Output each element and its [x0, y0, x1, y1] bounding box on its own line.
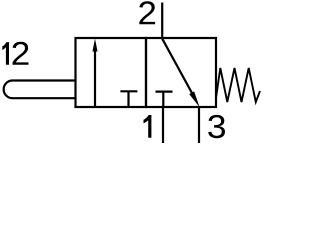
label 12 digit 2: [13, 42, 29, 65]
valve body right box: [146, 38, 216, 107]
label 3: [208, 115, 225, 138]
port 2 line: [161, 3, 163, 39]
return spring: [216, 68, 260, 102]
flow path diagonal arrowhead at port 3: [189, 91, 199, 107]
label 12 digit 1 (custom no-serif glyph): [2, 42, 9, 65]
blocked port T (right box, port 1): [156, 92, 173, 107]
flow path diagonal 2 to 3 (right box): [162, 39, 192, 94]
valve body left box: [76, 38, 147, 107]
port 1 line: [162, 107, 164, 143]
flow path arrow shaft (left box, 1 to 2): [94, 48, 96, 107]
label 2: [139, 1, 155, 24]
port 3 line: [198, 107, 200, 143]
label 1 (custom no-serif glyph): [144, 115, 152, 138]
blocked port T (left box, port 3): [120, 91, 137, 107]
manual plunger actuator (port 12): [4, 81, 76, 99]
flow path arrowhead (left box): [92, 39, 97, 52]
